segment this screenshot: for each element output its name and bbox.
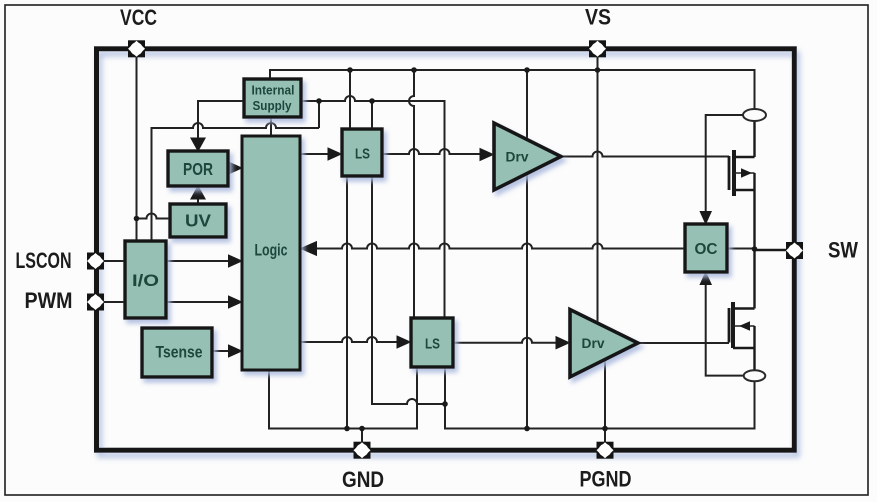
buffer Drv2 (triangle) [570, 310, 638, 378]
wire SW pin connection [755, 249, 787, 251]
wire VS to LS2 top (hops over internal-supply line) [409, 70, 414, 319]
svg-text:I/O: I/O [132, 271, 159, 290]
wire I/O to Logic lower (arrow) [166, 295, 243, 309]
wire internal supply output rail [301, 96, 445, 319]
block LS2 [411, 318, 453, 367]
svg-text:Internal: Internal [252, 83, 295, 98]
block Tsense [142, 328, 212, 377]
wire PWM pin to I/O [104, 301, 125, 303]
wire I/O to Logic upper (arrow) [166, 254, 243, 268]
wire GND net (Logic bottom to GND pin, up to LS2 bottom) [269, 367, 417, 442]
svg-text:LS: LS [355, 145, 370, 162]
wire LS2 to Drv2 (arrow, hop x527) [453, 336, 571, 350]
svg-text:POR: POR [183, 159, 213, 179]
svg-text:VS: VS [585, 5, 611, 30]
buffer Drv1 (triangle) [494, 123, 561, 190]
wire LS1 to Drv1 (arrow, hops at x414 x444) [382, 148, 495, 162]
pin VCC [128, 40, 145, 57]
block UV [170, 204, 226, 237]
block Logic [242, 136, 300, 370]
wire Drv1 output to Q1 gate (hop at x599) [561, 152, 729, 157]
wire VS to LS1 top [349, 70, 351, 130]
svg-text:Logic: Logic [255, 241, 288, 260]
svg-text:OC: OC [695, 241, 718, 258]
svg-text:PGND: PGND [580, 467, 632, 492]
wire LS1 ground a (to GND rail) [346, 176, 348, 429]
svg-text:LSCON: LSCON [16, 248, 72, 273]
current sensor E1 (ellipse) [743, 109, 766, 121]
wire Logic to LS1 (arrow) [300, 147, 343, 161]
wire LSCON pin to I/O [104, 260, 125, 262]
pin SW [786, 242, 803, 259]
svg-text:Supply: Supply [253, 98, 293, 113]
current sensor E2 (ellipse) [744, 370, 766, 381]
wire PGND rail (LS2 bottom to Q2 source return) [445, 367, 755, 442]
wire Drv2 bottom to PGND rail [604, 355, 606, 429]
wire POR to Logic (arrow right) [228, 161, 243, 175]
wire VS pin stub [597, 56, 599, 71]
functional blocks [125, 79, 727, 377]
block POR [168, 151, 228, 186]
wire VS rail (node VS distribution) [270, 70, 755, 109]
wire VS to Drv1 top and down to PGND rail [526, 70, 528, 429]
wire Logic to LS2 (arrow, hops x347 x372) [300, 335, 412, 349]
wire Tsense to Logic (arrow) [212, 344, 243, 358]
junction dots (net connection points) [316, 67, 757, 431]
block LS1 [342, 129, 382, 176]
pin VS [589, 40, 606, 57]
svg-text:PWM: PWM [25, 288, 73, 313]
wire OC bottom sense (from current sensor E2 to OC, arrow up) [699, 271, 743, 376]
wire LS1 ground b (to PGND collector, hop x417) [372, 176, 445, 404]
wire internal supply to I/O top [152, 101, 320, 242]
IC boundary (thick package rectangle) [97, 49, 795, 450]
transistor Q1 (high-side MOSFET) [729, 121, 755, 309]
wire UV to POR (arrow up) [190, 185, 206, 204]
svg-text:LS: LS [425, 335, 440, 352]
wire Drv2 output to Q2 gate [638, 342, 729, 344]
svg-text:Drv: Drv [582, 335, 605, 351]
pin GND [354, 442, 371, 459]
svg-text:SW: SW [828, 238, 858, 263]
svg-text:Drv: Drv [506, 149, 529, 165]
transistor Q2 (low-side MOSFET) [729, 302, 755, 370]
block Internal Supply [244, 79, 301, 117]
pin PWM [87, 294, 104, 311]
svg-text:VCC: VCC [120, 5, 157, 30]
wire SW feedback into Logic (arrow left, hops) [300, 241, 755, 256]
block labels [132, 83, 718, 362]
svg-text:Tsense: Tsense [156, 344, 203, 362]
block I/O [125, 241, 166, 318]
block OC [685, 224, 727, 272]
svg-text:GND: GND [342, 467, 384, 492]
wire internal supply bottom to Logic top [270, 116, 272, 137]
pin PGND [597, 442, 614, 459]
wire internal supply to LS1 top [371, 101, 373, 130]
wire VCC net (pin down to I/O, tap to UV) [134, 57, 171, 243]
wire internal supply left to POR (arrow down) [190, 101, 244, 152]
wire OC top sense (from current sensor E1 to OC, arrow down) [699, 115, 743, 225]
svg-text:UV: UV [185, 211, 211, 231]
wire VS to Drv2 top [597, 70, 599, 330]
pin LSCON [87, 253, 104, 270]
